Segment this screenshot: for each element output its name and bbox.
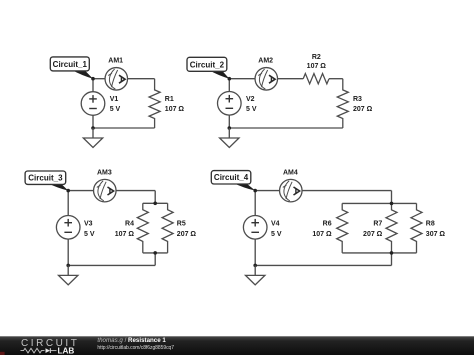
- wire node4 to V4: [254, 191, 256, 216]
- svg-text:AM2: AM2: [258, 58, 273, 65]
- wire down from bottom bar c3: [154, 253, 156, 266]
- footer logo diode: [46, 348, 51, 353]
- svg-text:107 Ω: 107 Ω: [165, 106, 185, 113]
- svg-text:V1: V1: [110, 96, 119, 103]
- wire bottom circuit4: [255, 264, 391, 266]
- node circuit2 bottom junction: [228, 126, 232, 130]
- svg-text:http://circuitlab.com/c8f6zg88: http://circuitlab.com/c8f6zg8859cq7: [97, 345, 174, 351]
- svg-text:V4: V4: [271, 221, 280, 228]
- svg-text:R8: R8: [426, 221, 435, 228]
- wire node4 to AM4: [255, 190, 279, 192]
- voltage source V2: [218, 92, 242, 116]
- ammeter AM4: [280, 179, 303, 202]
- net label Circuit_1: [50, 57, 93, 79]
- ground circuit3: [59, 265, 78, 285]
- svg-text:5 V: 5 V: [84, 231, 95, 238]
- node circuit3 top junction: [66, 189, 70, 193]
- node c3 parallel top: [153, 202, 157, 206]
- wire node2 to AM2: [229, 78, 255, 80]
- node circuit4 bottom junction: [253, 264, 257, 268]
- ammeter AM3: [94, 179, 117, 202]
- wire AM2 to R2: [278, 78, 304, 80]
- resistor R7: [386, 203, 397, 253]
- wire AM4 to parallel: [302, 190, 391, 192]
- wire node2 to V2: [228, 79, 230, 92]
- node circuit3 bottom junction: [66, 264, 70, 268]
- wire bottom circuit1: [93, 127, 155, 129]
- voltage source V1: [81, 92, 105, 116]
- resistor R2: [303, 74, 329, 84]
- wire V3 to bottom: [67, 239, 69, 265]
- wire V4 to bottom: [254, 239, 256, 265]
- svg-text:R1: R1: [165, 96, 174, 103]
- svg-text:107 Ω: 107 Ω: [307, 63, 327, 70]
- ground circuit1: [83, 128, 102, 148]
- node c3 parallel bottom: [153, 251, 157, 255]
- node circuit4 top junction: [253, 189, 257, 193]
- ammeter AM2: [255, 68, 278, 91]
- svg-text:Circuit_4: Circuit_4: [214, 173, 249, 182]
- wire bottom bar c4: [342, 252, 416, 254]
- svg-text:AM4: AM4: [283, 170, 298, 177]
- svg-text:207 Ω: 207 Ω: [177, 231, 197, 238]
- wire down from bottom bar c4: [391, 253, 393, 266]
- wire R2 to R3: [329, 78, 343, 80]
- node circuit2 top junction: [228, 77, 232, 81]
- svg-text:5 V: 5 V: [271, 231, 282, 238]
- node circuit1 bottom junction: [91, 126, 95, 130]
- node c4 parallel bottom: [390, 251, 394, 255]
- svg-text:thomas.g / Resistance 1: thomas.g / Resistance 1: [97, 337, 166, 344]
- resistor R8: [411, 203, 422, 253]
- voltage source V3: [56, 216, 80, 240]
- footer bar: [0, 336, 474, 355]
- svg-text:AM1: AM1: [108, 58, 123, 65]
- wire node1 to V1: [92, 79, 94, 92]
- svg-text:207 Ω: 207 Ω: [353, 106, 373, 113]
- wire top bar c4: [342, 202, 416, 204]
- svg-text:R4: R4: [125, 221, 134, 228]
- wire AM1 to R1: [128, 78, 155, 80]
- svg-text:5 V: 5 V: [246, 106, 257, 113]
- svg-text:R5: R5: [177, 221, 186, 228]
- svg-text:R7: R7: [373, 221, 382, 228]
- net label Circuit_3: [25, 171, 68, 191]
- svg-text:R3: R3: [353, 96, 362, 103]
- wire node1 to AM1: [93, 78, 105, 80]
- node circuit1 top junction: [91, 77, 95, 81]
- footer logo resistor zigzag: [21, 348, 45, 353]
- svg-text:Circuit_2: Circuit_2: [190, 60, 225, 69]
- svg-text:LAB: LAB: [58, 347, 75, 355]
- ground circuit2: [220, 128, 239, 148]
- net label Circuit_2: [187, 57, 229, 78]
- svg-text:V3: V3: [84, 221, 93, 228]
- footer red corner mark: [0, 352, 5, 355]
- net label Circuit_4: [211, 171, 255, 191]
- wire bottom bar c3: [143, 252, 168, 254]
- svg-text:Circuit_1: Circuit_1: [53, 60, 88, 69]
- ammeter AM1: [105, 68, 128, 91]
- svg-text:107 Ω: 107 Ω: [312, 231, 332, 238]
- svg-text:V2: V2: [246, 96, 255, 103]
- svg-text:AM3: AM3: [97, 170, 112, 177]
- wire V1 to bottom: [92, 115, 94, 128]
- wire node3 to V3: [67, 191, 69, 216]
- svg-text:5 V: 5 V: [110, 106, 121, 113]
- svg-text:R6: R6: [323, 221, 332, 228]
- svg-text:207 Ω: 207 Ω: [363, 231, 383, 238]
- svg-text:R2: R2: [312, 54, 321, 61]
- voltage source V4: [243, 216, 267, 240]
- resistor R5: [162, 203, 173, 253]
- wire down to top bar c4: [391, 191, 393, 204]
- wire top bar c3: [143, 202, 168, 204]
- resistor R4: [137, 203, 148, 253]
- svg-text:Circuit_3: Circuit_3: [28, 174, 63, 183]
- resistor R3: [337, 79, 348, 128]
- node c4 parallel top: [390, 202, 394, 206]
- svg-text:107 Ω: 107 Ω: [115, 231, 135, 238]
- ground circuit4: [246, 265, 265, 285]
- wire V2 to bottom: [228, 115, 230, 128]
- wire AM3 to parallel: [116, 190, 155, 192]
- svg-text:307 Ω: 307 Ω: [426, 231, 446, 238]
- wire down to top bar c3: [154, 191, 156, 204]
- wire bottom circuit3: [68, 264, 155, 266]
- resistor R1: [149, 79, 160, 128]
- wire node3 to AM3: [68, 190, 93, 192]
- resistor R6: [337, 203, 348, 253]
- wire bottom circuit2: [229, 127, 342, 129]
